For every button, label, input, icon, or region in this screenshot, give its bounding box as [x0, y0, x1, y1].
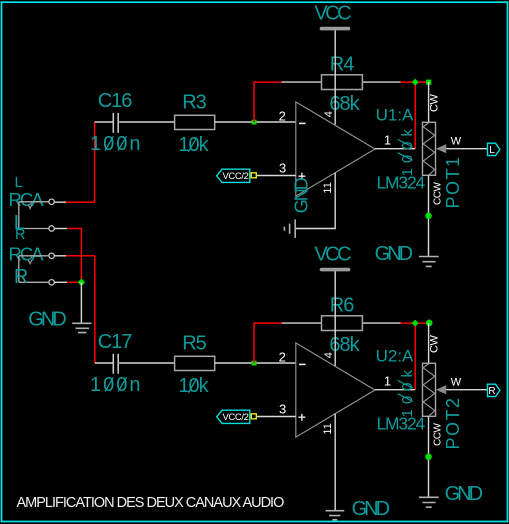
wire ground node to GND — [80, 282, 82, 323]
svg-text:2: 2 — [279, 349, 286, 364]
title text — [17, 495, 285, 511]
svg-text:POT2: POT2 — [443, 396, 463, 449]
wire VCC/2 to pin 3 — [257, 175, 296, 177]
ground symbol sideways at U1 — [284, 219, 295, 238]
potentiometer POT2 body — [423, 363, 436, 416]
svg-text:R3: R3 — [182, 92, 206, 114]
flag L output — [488, 143, 500, 156]
svg-text:VCC: VCC — [314, 243, 351, 265]
op-amp minus sign stage2 — [299, 363, 306, 365]
svg-text:VCC: VCC — [314, 2, 351, 24]
wire feedback gray leads of R6 — [282, 322, 401, 324]
connector RCA2 label — [9, 243, 45, 264]
value R of RCA2 — [14, 266, 28, 288]
wire RCA1 pin L stub — [54, 201, 66, 203]
svg-text:100n: 100n — [90, 133, 143, 155]
pin number 1 stage2 — [384, 374, 391, 389]
wire VCC to pin 4 — [334, 30, 336, 124]
label CW POT2 — [429, 335, 441, 353]
wire feedback right red — [401, 81, 431, 83]
wire pin 11 to bottom ground — [334, 414, 336, 511]
label W POT2 — [451, 377, 462, 389]
yellow endpoint square VCC/2 stage1 — [251, 173, 256, 178]
wire op-amp output stage2 — [375, 389, 415, 391]
svg-text:GND: GND — [292, 177, 312, 213]
junction node R3/feedback — [252, 120, 257, 125]
wire feedback right red stage2 — [401, 322, 431, 324]
svg-text:4: 4 — [323, 352, 335, 358]
svg-text:W: W — [451, 136, 462, 148]
label GND bottom U2 — [352, 498, 390, 520]
RCA1 chevron mark — [28, 204, 32, 208]
wire VCC to pin 4 stage2 — [334, 271, 336, 366]
wire pin 11 to ground — [295, 173, 335, 229]
pin number 3 stage2 — [279, 402, 286, 417]
op-amp plus sign — [298, 173, 305, 180]
label W POT1 — [451, 136, 462, 148]
wire RCA2 pin R stub — [54, 255, 66, 257]
ground symbol POT2 — [419, 497, 439, 507]
svg-text:W: W — [451, 377, 462, 389]
junction dot at POT2 branch — [426, 320, 433, 327]
op-amp minus sign — [299, 122, 306, 124]
svg-text:POT1: POT1 — [443, 155, 463, 208]
wire RCA1 gnd red — [67, 229, 81, 283]
label LM324 — [377, 173, 426, 193]
svg-text:RCA: RCA — [9, 189, 45, 210]
label U1:A — [376, 106, 414, 125]
POT2 wiper arrow — [436, 385, 446, 394]
resistor R6 — [322, 316, 363, 331]
wire feedback left red — [254, 82, 282, 122]
junction node R5/feedback — [252, 361, 257, 366]
power VCC symbol stage1 — [314, 2, 351, 28]
wire junction to POT1 top — [428, 82, 430, 122]
pin number 4 rotated stage2 — [323, 352, 335, 358]
wire VCC/2 to pin 3 stage2 — [257, 416, 296, 418]
value 10k of R3 — [178, 134, 209, 156]
pin number 4 rotated — [323, 111, 335, 117]
op-amp plus sign stage2 — [298, 414, 305, 421]
svg-text:C17: C17 — [98, 331, 133, 353]
svg-text:R: R — [14, 266, 28, 288]
label GND input — [28, 309, 66, 331]
pin number 11 rotated — [322, 182, 334, 193]
value 100k rotated POT2 — [398, 365, 416, 418]
svg-text:3: 3 — [279, 402, 286, 417]
svg-text:R4: R4 — [330, 53, 354, 75]
svg-text:C16: C16 — [98, 90, 133, 112]
label U2:A — [376, 347, 414, 366]
svg-text:R: R — [488, 386, 495, 397]
svg-text:100k: 100k — [399, 124, 416, 177]
svg-text:100n: 100n — [90, 374, 143, 396]
label C17 — [98, 331, 133, 353]
svg-text:3: 3 — [279, 161, 286, 176]
svg-text:GND: GND — [28, 309, 66, 331]
svg-text:11: 11 — [322, 182, 334, 193]
label CCW POT2 — [433, 423, 444, 446]
wire op-amp output — [375, 148, 415, 150]
label R6 — [330, 294, 354, 316]
label R4 — [330, 53, 354, 75]
svg-text:VCC/2: VCC/2 — [223, 171, 249, 182]
wire R input to C17 red — [66, 256, 95, 363]
label LM324 stage2 — [377, 414, 426, 434]
net label R input — [15, 227, 25, 243]
label POT1 rotated — [443, 155, 463, 208]
label POT2 rotated — [443, 396, 463, 449]
svg-text:U2:A: U2:A — [376, 347, 414, 366]
junction dot POT1 bottom — [425, 213, 432, 220]
connector RCA2 body — [19, 253, 55, 285]
op-amp U1:A triangle — [296, 102, 375, 196]
yellow endpoint square VCC/2 stage2 — [251, 414, 256, 419]
resistor R5 — [175, 356, 215, 370]
svg-text:1: 1 — [384, 133, 391, 148]
svg-text:2: 2 — [279, 108, 286, 123]
value L of RCA1 — [14, 212, 25, 234]
resistor R3 — [175, 115, 215, 129]
value 100n of C17 — [90, 374, 143, 396]
pin number 2 — [279, 108, 286, 123]
junction square at POT1 branch — [426, 80, 431, 85]
wire R5 to op-amp pin 2 — [215, 362, 296, 364]
svg-text:10k: 10k — [178, 134, 209, 156]
pin number 2 stage2 — [279, 349, 286, 364]
svg-text:VCC/2: VCC/2 — [223, 412, 249, 423]
pin number 3 — [279, 161, 286, 176]
capacitor C17 — [95, 354, 175, 374]
wire feedback left red stage2 — [254, 323, 282, 363]
wire output to feedback red vertical — [414, 82, 416, 149]
svg-text:R5: R5 — [182, 333, 206, 355]
resistor R4 — [322, 75, 363, 90]
wire POT1 bottom to ground — [428, 175, 430, 256]
svg-text:L: L — [489, 145, 495, 156]
junction diamond at feedback/output stage2 — [412, 320, 419, 327]
svg-text:AMPLIFICATION DES DEUX CANAUX: AMPLIFICATION DES DEUX CANAUX AUDIO — [17, 495, 285, 511]
junction dot POT2 bottom — [425, 454, 432, 461]
value 68k of R6 — [329, 334, 360, 356]
power VCC symbol stage2 — [314, 243, 351, 269]
label CW POT1 — [429, 94, 441, 112]
label GND POT2 — [445, 483, 483, 505]
net label L input — [15, 174, 23, 191]
svg-text:1: 1 — [384, 374, 391, 389]
wire RCA2 pin gnd stub — [54, 281, 67, 283]
wire wiper to R flag — [446, 389, 487, 391]
label CCW POT1 — [433, 182, 444, 205]
svg-text:100k: 100k — [399, 365, 416, 418]
value 100n of C16 — [90, 133, 143, 155]
wire junction to POT2 top — [428, 323, 430, 363]
wire L input vertical to C16 — [66, 122, 95, 202]
capacitor C16 — [95, 113, 175, 133]
connector RCA1 label — [9, 189, 45, 210]
net label GND rotated at op-amp — [292, 177, 312, 213]
RCA2 chevron mark — [28, 260, 32, 264]
wire wiper to L flag — [446, 148, 487, 150]
wire R3 to op-amp pin 2 — [215, 121, 296, 123]
pin number 11 rotated stage2 — [322, 423, 334, 434]
svg-text:RCA: RCA — [9, 243, 45, 264]
wire POT2 bottom to ground — [428, 416, 430, 497]
svg-text:CW: CW — [429, 94, 441, 112]
potentiometer POT1 body — [423, 122, 436, 175]
label GND POT1 — [375, 243, 413, 265]
POT1 wiper arrow — [436, 144, 446, 153]
flag VCC/2 stage1 — [217, 169, 250, 182]
value 68k of R4 — [329, 93, 360, 115]
wire feedback gray leads of R4 — [282, 81, 401, 83]
wire RCA2 gnd red — [67, 281, 81, 283]
svg-text:CW: CW — [429, 335, 441, 353]
label C16 — [98, 90, 133, 112]
ground symbol input — [72, 323, 91, 332]
svg-text:GND: GND — [445, 483, 483, 505]
op-amp U2:A triangle — [296, 343, 375, 437]
svg-text:GND: GND — [375, 243, 413, 265]
pin number 1 — [384, 133, 391, 148]
junction diamond at feedback/output — [412, 79, 419, 86]
ground symbol POT1 — [419, 257, 439, 267]
svg-text:R: R — [15, 227, 25, 243]
svg-text:11: 11 — [322, 423, 334, 434]
wire output to feedback red vertical stage2 — [414, 323, 416, 390]
svg-text:GND: GND — [352, 498, 390, 520]
value 100k rotated POT1 — [398, 124, 416, 177]
label R5 — [182, 333, 206, 355]
connector RCA1 body — [19, 199, 55, 231]
wire RCA1 pin gnd stub — [54, 228, 67, 230]
svg-text:4: 4 — [323, 111, 335, 117]
svg-text:R6: R6 — [330, 294, 354, 316]
value 10k of R5 — [178, 375, 209, 397]
flag R output — [488, 384, 500, 397]
flag VCC/2 stage2 — [217, 410, 250, 423]
label R3 — [182, 92, 206, 114]
svg-text:U1:A: U1:A — [376, 106, 414, 125]
svg-text:10k: 10k — [178, 375, 209, 397]
ground symbol bottom U2 — [326, 511, 345, 520]
junction ground node — [78, 278, 86, 286]
